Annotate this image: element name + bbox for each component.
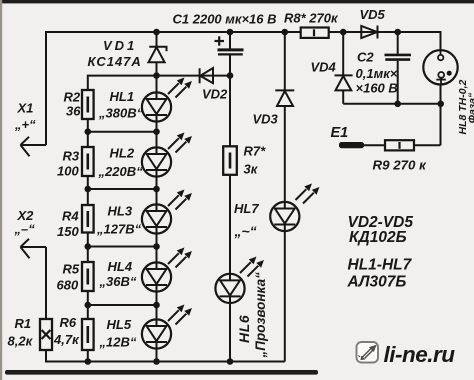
svg-text:R2: R2 — [64, 90, 81, 105]
svg-text:„Фаза“: „Фаза“ — [467, 92, 474, 129]
wire junction row 4 — [88, 304, 157, 306]
svg-text:R9 270 к: R9 270 к — [373, 158, 428, 173]
svg-text:„Прозвонка“: „Прозвонка“ — [253, 272, 268, 359]
resistor R8 — [301, 28, 329, 38]
junction HL4-HL5 — [153, 302, 160, 309]
junction HL2-HL3 — [153, 186, 160, 193]
diode VD3 — [275, 90, 294, 106]
wire HL7 column to bottom bus — [284, 231, 286, 362]
svg-text:HL1: HL1 — [110, 89, 135, 104]
resistor R3 — [82, 147, 94, 176]
svg-text:8,2к: 8,2к — [8, 334, 34, 349]
svg-text:VD3: VD3 — [253, 112, 279, 127]
junction lamp bottom node — [437, 101, 444, 108]
diode VD4 — [335, 75, 353, 90]
svg-text:R3: R3 — [63, 149, 80, 164]
resistor R1 — [40, 319, 52, 350]
wire R9 to lamp — [414, 144, 441, 146]
resistor R6 — [82, 319, 94, 350]
svg-text:×160 В: ×160 В — [356, 81, 398, 96]
LED HL5 — [142, 305, 191, 348]
connector X2 — [21, 239, 47, 258]
svg-text:VD2: VD2 — [202, 87, 228, 102]
junction top bus / VD1 — [153, 29, 160, 36]
wire E1 to R9 — [362, 144, 385, 146]
svg-text:„~“: „~“ — [234, 223, 257, 239]
junction R5-R6 — [85, 302, 92, 309]
probe E1 — [339, 142, 364, 148]
LED HL2 — [142, 133, 191, 176]
svg-text:150: 150 — [57, 224, 79, 239]
wire left X1 branch — [45, 31, 47, 145]
svg-text:VD4: VD4 — [311, 60, 337, 75]
wire lamp column — [440, 32, 442, 145]
svg-text:680: 680 — [57, 278, 79, 293]
junction HL1-HL2 — [153, 128, 160, 135]
svg-text:„220В“: „220В“ — [98, 164, 144, 179]
connector X1 — [21, 137, 47, 156]
zener diode VD1 — [149, 47, 167, 63]
resistor R2 — [82, 90, 94, 119]
wire LED column segments — [156, 32, 158, 362]
wire C1 R7 HL6 column — [229, 32, 231, 362]
wire resistor column segments — [87, 119, 89, 362]
wire bottom of VD4 C2 to lamp — [343, 103, 441, 105]
LED HL7 — [270, 184, 318, 231]
svg-text:„12В“: „12В“ — [99, 335, 137, 350]
diode VD2 — [200, 68, 213, 83]
svg-text:4,7к: 4,7к — [53, 332, 80, 347]
wire junction row 3 — [88, 246, 157, 248]
svg-text:„380В“: „380В“ — [98, 106, 144, 121]
svg-text:АЛ307Б: АЛ307Б — [347, 274, 407, 291]
svg-text:R4: R4 — [62, 209, 79, 224]
svg-text:3к: 3к — [244, 162, 259, 177]
resistor R5 — [82, 262, 94, 291]
junction C1 minus node — [227, 72, 234, 79]
wire VD4 column — [342, 32, 344, 104]
svg-text:КС147А: КС147А — [88, 54, 142, 69]
wire R1 to bottom bus — [46, 350, 285, 362]
wire node A horizontal y75 — [88, 76, 230, 90]
svg-text:HL2: HL2 — [110, 146, 135, 161]
resistor R9 — [385, 140, 414, 150]
svg-text:„–“: „–“ — [14, 222, 36, 237]
svg-text:С2: С2 — [357, 50, 374, 65]
svg-text:Х1: Х1 — [17, 101, 34, 116]
junction bottom bus / HL6 — [227, 358, 234, 365]
svg-text:HL6: HL6 — [236, 315, 252, 343]
diode VD5 — [361, 26, 377, 39]
svg-text:С1 2200 мк×16 В: С1 2200 мк×16 В — [173, 12, 277, 27]
svg-text:100: 100 — [57, 164, 79, 179]
LED HL3 — [142, 190, 191, 233]
junction top bus / C2 — [394, 29, 401, 36]
svg-text:VD5: VD5 — [360, 7, 386, 22]
wire X2 to R1 — [45, 247, 47, 319]
junction top bus / VD3 — [282, 29, 289, 36]
svg-text:R6: R6 — [60, 315, 77, 330]
svg-text:36: 36 — [66, 104, 81, 119]
svg-text:HL5: HL5 — [107, 317, 132, 332]
junction R2-R3 — [85, 128, 92, 135]
watermark logo — [357, 342, 456, 367]
svg-text:„127В“: „127В“ — [96, 222, 142, 237]
svg-text:„+“: „+“ — [14, 117, 36, 132]
svg-text:КД102Б: КД102Б — [349, 229, 407, 246]
svg-text:HL4: HL4 — [108, 259, 133, 274]
resistor R4 — [82, 205, 94, 233]
junction C2 bottom node — [394, 101, 401, 108]
svg-text:0,1мк×: 0,1мк× — [356, 66, 398, 81]
junction R3-R4 — [85, 186, 92, 193]
junction R4-R5 — [85, 243, 92, 250]
junction top bus / VD4 — [340, 29, 347, 36]
svg-text:R7*: R7* — [244, 144, 267, 159]
svg-text:HL3: HL3 — [108, 204, 133, 219]
resistor R7 — [223, 146, 237, 175]
svg-text:R5: R5 — [63, 262, 80, 277]
LED HL6 — [215, 257, 263, 303]
junction top bus / C1 — [227, 29, 234, 36]
svg-text:VD1: VD1 — [103, 38, 137, 53]
capacitor C1 — [215, 36, 244, 54]
junction bottom bus / HL5 — [153, 358, 160, 365]
wire C2 column — [397, 32, 399, 104]
svg-text:R1: R1 — [15, 316, 32, 331]
svg-text:HL1-HL7: HL1-HL7 — [348, 257, 413, 274]
capacitor C2 — [385, 55, 412, 60]
svg-text:„36В“: „36В“ — [99, 274, 137, 289]
wire VD3 HL7 column — [284, 32, 286, 202]
neon lamp HL8 — [423, 50, 457, 84]
junction bottom bus / R6 — [85, 358, 92, 365]
svg-text:Е1: Е1 — [331, 125, 349, 141]
junction HL3-HL4 — [153, 243, 160, 250]
LED HL4 — [142, 248, 191, 291]
svg-text:R8* 270к: R8* 270к — [284, 10, 339, 25]
junction VD1 anode node — [153, 72, 160, 79]
wire junction row 1 — [88, 131, 157, 133]
wire junction row 2 — [88, 188, 157, 190]
svg-text:HL7: HL7 — [234, 201, 259, 216]
svg-text:li-ne.ru: li-ne.ru — [384, 342, 456, 367]
LED HL1 — [142, 78, 191, 121]
wire top bus — [46, 31, 442, 33]
